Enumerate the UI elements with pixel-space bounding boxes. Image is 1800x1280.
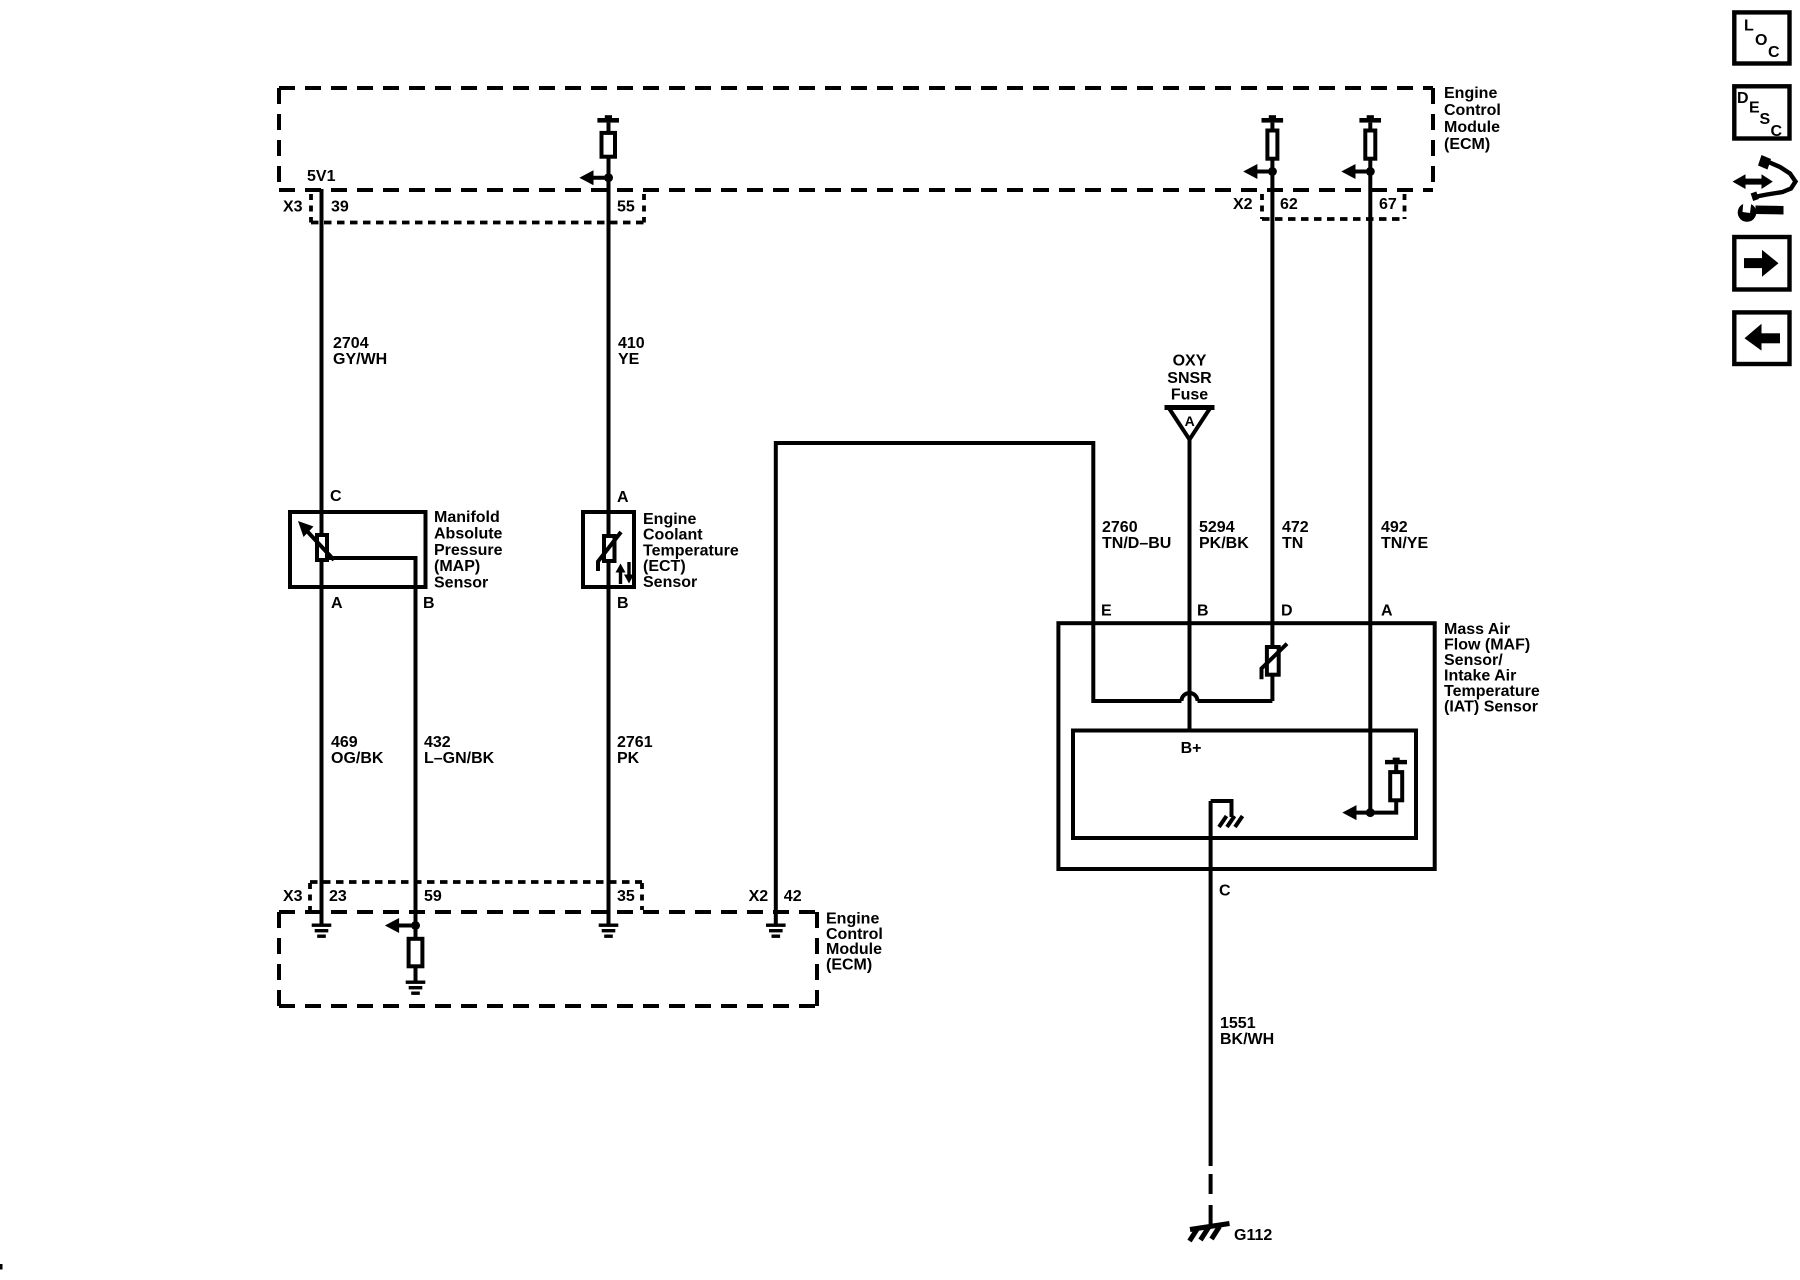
dashed wire to ground G112: [1209, 1174, 1213, 1224]
connector X3 top strip: [283, 194, 644, 223]
ECM bottom label: [826, 911, 883, 974]
arrow at pin 62: [1243, 164, 1272, 179]
resistor R67 (ECM internal pull-up on pin 67): [1359, 115, 1381, 171]
ECT sensor U2 box: [583, 512, 634, 587]
wire 2704 (5V1 from pin 39 to MAP C): [320, 189, 324, 533]
ground at pin 23 (ECM internal): [312, 924, 332, 938]
wire label 5294 PK/BK: [1199, 519, 1249, 552]
svg-text:X3: X3: [283, 888, 303, 905]
wire label 410 YE: [618, 335, 645, 368]
wire label 492 TN/YE: [1381, 519, 1428, 552]
svg-text:Mass Air: Mass Air: [1444, 621, 1510, 638]
resistor R59 (ECM internal on pin 59): [409, 926, 423, 981]
svg-text:X3: X3: [283, 199, 303, 216]
wire D below thermistor: [1270, 675, 1274, 701]
ground at pin 42 (ECM internal): [766, 924, 786, 938]
svg-text:1551: 1551: [1220, 1015, 1256, 1032]
wire 432 (MAP B to pin 59): [414, 589, 418, 926]
wire 5294 net corner (pin 42 to MAF E): [776, 443, 1094, 924]
wire 472 (pin 62 to MAF D): [1270, 172, 1274, 648]
svg-text:Absolute: Absolute: [434, 525, 503, 542]
svg-text:TN/D–BU: TN/D–BU: [1102, 535, 1171, 552]
svg-text:Module: Module: [1444, 119, 1500, 136]
thermistor IAT on wire D: [1262, 644, 1288, 680]
MAP sensor U1 box: [290, 512, 426, 587]
svg-text:C: C: [1771, 123, 1783, 140]
resistor R62 (ECM internal pull-up on pin 62): [1262, 115, 1284, 171]
ECM (Engine Control Module) top dashed box: [279, 88, 1433, 190]
svg-text:Flow (MAF): Flow (MAF): [1444, 637, 1530, 654]
svg-text:E: E: [1749, 100, 1760, 117]
wire label 2760 TN/D-BU: [1102, 519, 1171, 552]
svg-text:5V1: 5V1: [307, 168, 336, 185]
resistor inside MAF (IAT pull-up): [1354, 758, 1407, 813]
svg-text:(ECM): (ECM): [826, 956, 872, 973]
junction on wire 59: [411, 921, 420, 930]
svg-text:23: 23: [329, 888, 347, 905]
ground below R59: [406, 981, 426, 995]
fuse OXY SNSR label: [1167, 353, 1212, 404]
MAF/IAT sensor U3 outer box: [1058, 623, 1434, 869]
svg-text:B: B: [617, 595, 629, 612]
svg-text:55: 55: [617, 199, 635, 216]
thermistor inside ECT: [598, 532, 621, 571]
svg-text:O: O: [1755, 32, 1767, 49]
svg-text:A: A: [1381, 603, 1393, 620]
svg-text:39: 39: [331, 199, 349, 216]
connector X3 bottom strip: [283, 882, 642, 910]
wire label 472 TN: [1282, 519, 1309, 552]
svg-text:469: 469: [331, 734, 358, 751]
wire 5294 (fuse to MAF B): [1188, 439, 1192, 731]
ground at pin 35 (ECM internal): [599, 924, 619, 938]
ECT sensor label: [643, 511, 739, 591]
svg-text:Fuse: Fuse: [1171, 386, 1208, 403]
svg-text:TN/YE: TN/YE: [1381, 535, 1428, 552]
svg-text:B: B: [423, 595, 435, 612]
svg-text:(IAT) Sensor: (IAT) Sensor: [1444, 699, 1538, 716]
svg-text:Sensor/: Sensor/: [1444, 652, 1503, 669]
svg-text:Sensor: Sensor: [434, 575, 488, 592]
variable resistor inside MAP: [298, 521, 334, 560]
svg-text:PK: PK: [617, 750, 640, 767]
junction on wire 62: [1268, 167, 1277, 176]
svg-text:B: B: [1197, 603, 1209, 620]
up/down arrows inside ECT: [616, 562, 635, 584]
svg-text:S: S: [1760, 111, 1771, 128]
svg-text:Coolant: Coolant: [643, 527, 703, 544]
fuse symbol (triangle) pin A: [1165, 408, 1215, 440]
svg-text:A: A: [1185, 413, 1195, 429]
svg-text:X2: X2: [749, 888, 769, 905]
svg-text:(ECM): (ECM): [1444, 136, 1490, 153]
arrow at pin 59: [385, 918, 416, 933]
svg-text:62: 62: [1280, 196, 1298, 213]
svg-text:2760: 2760: [1102, 519, 1138, 536]
svg-text:PK/BK: PK/BK: [1199, 535, 1249, 552]
svg-text:G112: G112: [1234, 1227, 1272, 1244]
svg-text:OXY: OXY: [1173, 353, 1207, 370]
resistor R55 (ECM internal pull-up on pin 55): [597, 115, 619, 178]
junction inside MAF: [1366, 808, 1375, 817]
svg-text:YE: YE: [618, 351, 640, 368]
svg-text:492: 492: [1381, 519, 1408, 536]
icon arrows and wrench: [1733, 155, 1796, 222]
icon DESC box: [1734, 86, 1789, 140]
svg-text:SNSR: SNSR: [1167, 370, 1212, 387]
svg-text:Engine: Engine: [1444, 85, 1497, 102]
svg-text:L: L: [1744, 18, 1754, 35]
svg-text:432: 432: [424, 734, 451, 751]
svg-text:C: C: [330, 488, 342, 505]
page edge mark: [0, 1264, 3, 1270]
svg-text:OG/BK: OG/BK: [331, 750, 384, 767]
arrow at pin 67: [1341, 164, 1370, 179]
icon LOC box: [1734, 12, 1789, 63]
svg-text:D: D: [1737, 90, 1749, 107]
MAP sensor label: [434, 509, 503, 592]
wire label 1551 BK/WH: [1220, 1015, 1274, 1048]
svg-text:5294: 5294: [1199, 519, 1235, 536]
svg-text:Intake Air: Intake Air: [1444, 668, 1516, 685]
svg-text:Pressure: Pressure: [434, 542, 503, 559]
wire label 2761 PK: [617, 734, 653, 767]
svg-text:X2: X2: [1233, 196, 1253, 213]
svg-text:Manifold: Manifold: [434, 509, 500, 526]
MAF sensor label: [1444, 621, 1540, 716]
wire 1551 (MAF C to G112): [1209, 801, 1213, 1166]
svg-text:Engine: Engine: [643, 511, 696, 528]
svg-text:410: 410: [618, 335, 645, 352]
svg-text:35: 35: [617, 888, 635, 905]
svg-text:C: C: [1768, 44, 1780, 61]
wire 2761 (ECT B to pin 35): [607, 563, 611, 924]
wire 492 (pin 67 to MAF A): [1368, 172, 1372, 813]
wire label 469 OG/BK: [331, 734, 384, 767]
svg-text:42: 42: [784, 888, 802, 905]
wire label 2704 GY/WH: [333, 335, 387, 368]
hop over wire B: [1182, 693, 1198, 701]
svg-text:L–GN/BK: L–GN/BK: [424, 750, 495, 767]
svg-text:BK/WH: BK/WH: [1220, 1031, 1274, 1048]
chassis ground inside MAF: [1211, 801, 1243, 827]
junction on wire 55: [604, 173, 613, 182]
svg-text:A: A: [331, 595, 343, 612]
arrow at pin 55: [579, 170, 608, 185]
connector X2 top strip: [1233, 194, 1405, 219]
svg-text:2704: 2704: [333, 335, 369, 352]
wire 410 (pin 55 to ECT A): [607, 178, 611, 534]
wire 469 (MAP A to pin 23): [320, 562, 324, 924]
ECM bottom dashed box: [279, 912, 817, 1006]
wire label 432 L-GN/BK: [424, 734, 495, 767]
svg-text:59: 59: [424, 888, 442, 905]
svg-text:Control: Control: [1444, 102, 1501, 119]
icon back arrow box: [1734, 312, 1789, 364]
svg-text:GY/WH: GY/WH: [333, 351, 387, 368]
svg-text:(ECT): (ECT): [643, 558, 686, 575]
svg-text:(MAP): (MAP): [434, 558, 480, 575]
svg-text:B+: B+: [1181, 740, 1202, 757]
svg-text:67: 67: [1379, 196, 1397, 213]
svg-text:2761: 2761: [617, 734, 653, 751]
MAP internal wire B: [329, 558, 416, 589]
svg-text:Sensor: Sensor: [643, 574, 697, 591]
svg-text:A: A: [617, 489, 629, 506]
ground G112 symbol: [1190, 1224, 1230, 1242]
svg-text:C: C: [1219, 883, 1231, 900]
svg-text:472: 472: [1282, 519, 1309, 536]
arrow inside MAF: [1342, 805, 1356, 820]
junction on wire 67: [1366, 167, 1375, 176]
svg-text:TN: TN: [1282, 535, 1303, 552]
svg-text:E: E: [1101, 603, 1112, 620]
MAF inner box: [1073, 731, 1416, 839]
svg-text:Temperature: Temperature: [643, 542, 739, 559]
ECM top label: [1444, 85, 1501, 153]
MAF internal wire E-D with hop over B: [1093, 625, 1181, 701]
svg-text:Temperature: Temperature: [1444, 683, 1540, 700]
icon forward arrow box: [1734, 237, 1789, 290]
svg-text:D: D: [1281, 603, 1293, 620]
